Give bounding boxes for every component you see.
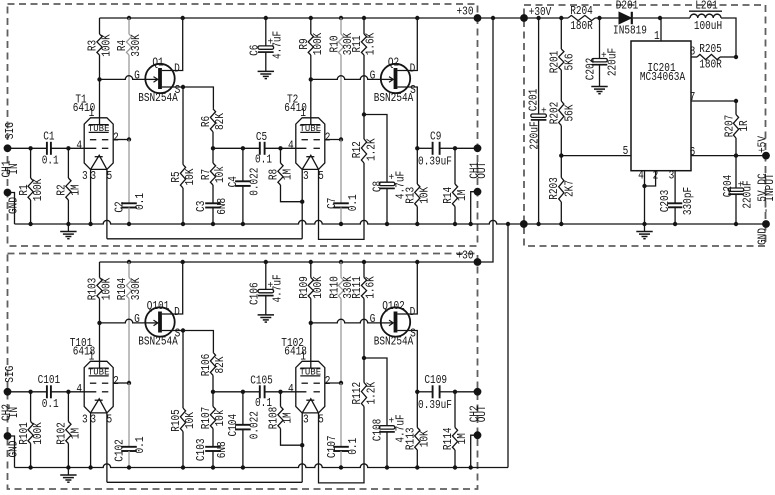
svg-text:100K: 100K [100, 277, 114, 300]
wire ground feed to CH2 [507, 224, 509, 468]
transistor Q1 [145, 64, 174, 93]
capacitor C204 [735, 156, 737, 188]
wire input to grid pin 4 [51, 147, 96, 149]
svg-text:C106: C106 [248, 282, 262, 305]
node C204 top [734, 153, 738, 157]
resistor R101 [30, 392, 32, 422]
svg-text:220uF: 220uF [606, 48, 620, 76]
node R108 to cathode of T102 [300, 443, 304, 447]
resistor R203 [560, 156, 562, 178]
resistor R11 [363, 18, 365, 34]
node CH1 OUT ground terminal [474, 188, 482, 196]
svg-text:C108: C108 [370, 419, 384, 442]
wire plate of T1 (pin 1) [99, 79, 101, 125]
resistor R2 [67, 148, 69, 178]
transistor Q2 [381, 64, 410, 93]
resistor R3 [99, 18, 101, 34]
svg-text:10k: 10k [213, 166, 227, 183]
svg-text:R205: R205 [699, 42, 722, 56]
resistor R107 [212, 392, 214, 407]
wire drain of Q2 [397, 18, 417, 71]
node R103 bottom / gate junction [97, 321, 101, 325]
svg-text:4: 4 [76, 382, 82, 396]
svg-text:1M: 1M [281, 412, 295, 423]
wire CH1 gnd terminal link [8, 193, 15, 225]
wire L201 to output node [721, 18, 736, 57]
svg-text:R11: R11 [350, 36, 364, 53]
ground under C6 [265, 70, 267, 72]
resistor R110 [340, 262, 342, 278]
svg-text:10K: 10K [183, 411, 197, 429]
wire CH1 filament link [107, 238, 302, 240]
svg-text:10K: 10K [183, 168, 197, 186]
capacitor C202 [599, 18, 601, 59]
svg-text:C109: C109 [424, 373, 447, 387]
svg-text:1: 1 [89, 350, 95, 364]
capacitor C201 [538, 18, 540, 114]
resistor R14 [454, 148, 456, 184]
svg-text:-: - [759, 208, 773, 214]
wire CH2 +30 rail [100, 261, 478, 263]
resistor R201 [560, 18, 562, 49]
wire CH2 input [8, 391, 47, 393]
wire pin 5 cathode of T101 [106, 413, 108, 482]
ground under R102 [67, 468, 69, 476]
resistor R13 [416, 148, 418, 184]
node CH2 OUT terminal [474, 388, 482, 396]
tube T1 [84, 118, 113, 170]
svg-text:0.022: 0.022 [248, 168, 262, 196]
node R2 top [66, 146, 70, 150]
resistor R9 [310, 18, 312, 34]
svg-text:5K6: 5K6 [563, 54, 577, 71]
svg-text:OUT: OUT [475, 405, 489, 422]
wire pin 2 [645, 171, 656, 186]
svg-text:C103: C103 [194, 439, 208, 462]
node R13 top / source junction [415, 146, 419, 150]
svg-text:1M: 1M [69, 428, 83, 439]
svg-text:1M: 1M [455, 190, 469, 201]
resistor R108 [280, 392, 282, 407]
svg-text:2K7: 2K7 [562, 180, 576, 197]
svg-text:Q101: Q101 [147, 299, 170, 313]
svg-text:C3: C3 [194, 201, 208, 212]
svg-text:G: G [370, 312, 376, 326]
svg-text:1.6K: 1.6K [363, 32, 377, 55]
wire gate of Q102 [311, 319, 384, 323]
svg-text:OUT: OUT [475, 162, 489, 179]
svg-text:R204: R204 [570, 4, 593, 18]
capacitor C203 [674, 202, 676, 204]
capacitor C9 [417, 147, 432, 149]
node CH1 +30 terminal [474, 14, 482, 22]
wire pin 4 to ground [644, 171, 646, 224]
svg-text:C8: C8 [370, 181, 384, 192]
svg-text:IN5819: IN5819 [613, 23, 647, 37]
svg-text:R6: R6 [199, 116, 213, 127]
resistor R103 [99, 262, 101, 278]
svg-text:R111: R111 [350, 276, 364, 299]
svg-text:R203: R203 [547, 177, 561, 200]
svg-text:SIG: SIG [3, 122, 17, 139]
svg-text:220uF: 220uF [528, 121, 542, 149]
resistor R7 [212, 148, 214, 163]
node R207 top [734, 99, 738, 103]
svg-text:100K: 100K [311, 32, 325, 55]
node C104 top [241, 390, 245, 394]
svg-text:330pF: 330pF [681, 187, 695, 215]
svg-text:C1: C1 [43, 129, 54, 143]
wire pin 7 [691, 100, 736, 102]
svg-text:8: 8 [690, 44, 696, 58]
node CH2 +30 terminal [474, 258, 482, 266]
svg-text:4: 4 [288, 139, 294, 153]
svg-text:C104: C104 [226, 414, 240, 437]
svg-text:BSN254A: BSN254A [138, 334, 178, 348]
svg-text:G: G [134, 69, 140, 83]
svg-text:R7: R7 [199, 169, 213, 180]
svg-text:Q1: Q1 [152, 55, 163, 69]
wire pin 3 of T101 [90, 413, 92, 468]
svg-text:Q102: Q102 [382, 299, 405, 313]
svg-text:D: D [174, 61, 180, 75]
wire pin 5 of T2 [319, 163, 365, 239]
svg-text:3: 3 [669, 169, 675, 183]
svg-text:R103: R103 [86, 278, 100, 301]
svg-text:BSN254A: BSN254A [374, 334, 414, 348]
node source Q1 / R5 top [181, 85, 185, 89]
svg-text:100K: 100K [311, 276, 325, 299]
svg-text:R3: R3 [86, 40, 100, 51]
wire source of Q102 [397, 331, 417, 392]
svg-text:C6: C6 [248, 45, 262, 56]
wire plate of T2 (pin 1) [310, 79, 312, 125]
IC U1 IC201 box [631, 41, 691, 171]
svg-text:R12: R12 [350, 141, 364, 158]
resistor R109 [310, 262, 312, 278]
wire pin 3 of T1 [90, 169, 92, 224]
wire pin 5 cathode of T1 [106, 169, 108, 238]
node R108 top [278, 390, 282, 394]
svg-text:7: 7 [690, 90, 696, 104]
svg-text:+5V: +5V [756, 135, 770, 153]
ground under R2 [67, 224, 69, 232]
wire CH2 filament link [107, 481, 302, 483]
node R1 top [28, 146, 32, 150]
node R102 top [66, 390, 70, 394]
wire to CH2 OUT [455, 391, 478, 393]
svg-text:0.1: 0.1 [346, 438, 360, 455]
resistor R6 [210, 109, 215, 132]
tube T2 [296, 118, 325, 170]
wire drain of Q101 [162, 262, 183, 314]
wire pin 5 [561, 155, 631, 157]
svg-text:GND: GND [756, 228, 770, 245]
node R113 top / source junction [415, 390, 419, 394]
resistor R1 [30, 148, 32, 178]
diode D201 [619, 12, 631, 24]
wire gate of Q2 [311, 76, 384, 80]
svg-text:82K: 82K [213, 356, 227, 374]
svg-text:220uF: 220uF [741, 180, 755, 208]
wire pin 1 [660, 18, 662, 41]
capacitor C6 [265, 18, 267, 46]
svg-text:4: 4 [76, 139, 82, 153]
resistor R111 [363, 262, 365, 278]
svg-text:+30: +30 [457, 248, 474, 262]
wire node to C108 [364, 358, 387, 426]
node R109 bottom / gate junction [309, 321, 313, 325]
svg-text:BSN254A: BSN254A [374, 91, 414, 105]
svg-text:10K: 10K [418, 186, 432, 204]
capacitor C3 [212, 185, 214, 203]
svg-text:C7: C7 [325, 198, 339, 209]
node A R6 bottom [211, 146, 215, 150]
wire drain of Q102 [397, 262, 417, 314]
svg-text:3: 3 [82, 169, 88, 183]
svg-text:C204: C204 [721, 175, 735, 198]
node CH1 IN terminal [4, 144, 12, 152]
svg-text:C5: C5 [256, 130, 267, 144]
svg-text:100K: 100K [31, 178, 45, 201]
svg-text:C107: C107 [325, 436, 339, 459]
svg-text:10K: 10K [418, 430, 432, 448]
svg-text:4: 4 [638, 169, 644, 183]
node R14 top [453, 146, 457, 150]
svg-text:2: 2 [113, 131, 119, 145]
resistor R8 [280, 148, 282, 163]
svg-text:R1: R1 [17, 184, 31, 195]
svg-text:+30: +30 [457, 4, 474, 18]
wire gate of Q101 [100, 319, 149, 323]
CH2 box border [8, 254, 478, 490]
svg-text:C2: C2 [113, 201, 127, 212]
resistor R113 [416, 392, 418, 428]
capacitor C4 [242, 148, 244, 181]
svg-text:180R: 180R [570, 19, 593, 33]
svg-text:GND: GND [6, 197, 20, 214]
svg-text:C101: C101 [38, 373, 61, 387]
svg-text:C202: C202 [584, 58, 598, 81]
svg-text:0.022: 0.022 [248, 411, 262, 439]
svg-text:1: 1 [89, 106, 95, 120]
wire node A to C5 [213, 147, 260, 149]
wire node to C8 [364, 115, 387, 183]
svg-text:4.7uF: 4.7uF [271, 274, 285, 302]
capacitor C8 [386, 181, 388, 183]
svg-text:1: 1 [300, 106, 306, 120]
tube T101 [84, 361, 113, 413]
svg-text:R13: R13 [404, 187, 418, 204]
capacitor C105 [259, 385, 261, 398]
svg-text:1.2K: 1.2K [365, 381, 379, 404]
node C202 top [597, 16, 601, 20]
svg-text:R108: R108 [267, 407, 281, 430]
svg-text:0.39uF: 0.39uF [418, 154, 452, 168]
wire D201 to L201 [633, 17, 690, 19]
svg-text:56K: 56K [562, 104, 576, 122]
svg-text:C201: C201 [527, 89, 541, 112]
svg-text:2: 2 [325, 374, 331, 388]
node source Q101 / R105 top [181, 328, 185, 332]
node R11 bottom [362, 112, 366, 116]
wire to CH1 OUT [455, 147, 478, 149]
capacitor C108 [386, 425, 388, 427]
wire drain of Q1 [162, 18, 183, 71]
svg-text:G: G [370, 69, 376, 83]
wire pin 2 of T101 [113, 382, 129, 384]
svg-text:3: 3 [303, 413, 309, 427]
svg-text:R110: R110 [328, 276, 342, 299]
svg-text:4.7uF: 4.7uF [271, 31, 285, 59]
node IC pin1 junction [658, 16, 662, 20]
svg-text:R106: R106 [199, 354, 213, 377]
svg-text:1.6K: 1.6K [363, 276, 377, 299]
node +30V terminal [520, 14, 528, 22]
svg-text:R112: R112 [350, 382, 364, 405]
svg-text:D: D [174, 305, 180, 319]
svg-text:10k: 10k [213, 410, 227, 427]
svg-text:R4: R4 [115, 40, 129, 51]
svg-text:2: 2 [325, 131, 331, 145]
svg-text:6N8: 6N8 [215, 441, 229, 458]
wire R204 to D201 [595, 17, 619, 19]
svg-text:R2: R2 [55, 184, 69, 195]
svg-text:330K: 330K [129, 34, 143, 57]
wire input to grid pin 4 [51, 391, 96, 393]
wire pin 3 [674, 171, 676, 204]
svg-text:D: D [410, 305, 416, 319]
wire pin 5 of T102 [319, 407, 365, 483]
node R8 top [278, 146, 282, 150]
svg-text:2: 2 [653, 169, 659, 183]
svg-text:R109: R109 [297, 276, 311, 299]
svg-text:TUBE: TUBE [88, 123, 110, 134]
svg-text:Q2: Q2 [388, 55, 399, 69]
node R114 top [453, 390, 457, 394]
svg-text:100uH: 100uH [694, 19, 722, 33]
capacitor C109 [417, 391, 432, 393]
svg-text:INPUT: INPUT [763, 173, 775, 201]
node +5V terminal [762, 152, 770, 160]
svg-text:0.1: 0.1 [42, 397, 59, 411]
node supply ground junctions [536, 222, 540, 226]
svg-text:MC34063A: MC34063A [640, 70, 686, 84]
svg-text:C102: C102 [113, 439, 127, 462]
node CH2 OUT ground terminal [474, 431, 482, 439]
svg-text:3: 3 [303, 169, 309, 183]
node C203 bottom [673, 222, 677, 226]
svg-text:3: 3 [82, 413, 88, 427]
node CH2 IN terminal [4, 388, 12, 396]
svg-text:0.1: 0.1 [42, 154, 59, 168]
wire gate of Q1 [100, 76, 149, 80]
svg-text:82K: 82K [213, 112, 227, 130]
wire pin 2 of T102 [325, 382, 341, 384]
svg-text:0.1: 0.1 [133, 193, 147, 210]
capacitor C103 [212, 429, 214, 447]
wire +30 feed to CH2 [478, 18, 494, 262]
node CH2 GND terminal [4, 432, 12, 440]
svg-text:R201: R201 [547, 51, 561, 74]
node R101 top [28, 390, 32, 394]
svg-text:1R: 1R [737, 120, 751, 131]
wire source of Q1 [162, 87, 214, 109]
svg-text:1.2K: 1.2K [365, 138, 379, 161]
node A R106 bottom [211, 390, 215, 394]
svg-text:0.39uF: 0.39uF [418, 398, 452, 412]
svg-text:R104: R104 [115, 278, 129, 301]
capacitor C104 [242, 392, 244, 425]
ground under IC201 [644, 224, 646, 232]
resistor R202 [559, 101, 564, 126]
node CH1 GND terminal [4, 189, 12, 197]
wire plate of T102 (pin 1) [310, 323, 312, 369]
svg-text:GND: GND [6, 441, 20, 458]
svg-text:R5: R5 [169, 171, 183, 182]
node R3 bottom / gate junction [97, 77, 101, 81]
svg-text:5: 5 [623, 144, 629, 158]
capacitor C7 [340, 140, 342, 204]
wire pin 2 of T1 [113, 139, 129, 141]
wire C105 to grid of T102 [265, 391, 307, 393]
svg-text:R9: R9 [297, 38, 311, 49]
ground under C202 [599, 86, 601, 88]
wire main ground rail [15, 220, 767, 224]
resistor R5 [182, 87, 184, 165]
capacitor C106 [265, 262, 267, 289]
resistor R12 [363, 115, 365, 140]
node R8 to cathode of T2 [300, 200, 304, 204]
wire pin 3 of T2 [301, 169, 303, 238]
svg-text:1M: 1M [281, 169, 295, 180]
wire R201 to R202 [560, 70, 562, 101]
svg-text:C4: C4 [226, 176, 240, 187]
svg-text:R102: R102 [55, 422, 69, 445]
svg-text:330K: 330K [129, 277, 143, 300]
wire CH1 input [8, 147, 47, 149]
wire pin 6 to +5V [691, 155, 766, 157]
wire C5 to grid of T2 [265, 147, 307, 149]
svg-text:C9: C9 [430, 129, 441, 143]
CH1 box border [8, 4, 478, 246]
node GND terminal [762, 220, 770, 228]
svg-text:100K: 100K [100, 34, 114, 57]
wire CH1 OUT ground link [471, 192, 478, 224]
svg-text:6N8: 6N8 [215, 198, 229, 215]
capacitor C107 [340, 383, 342, 447]
wire node A to C105 [213, 391, 260, 393]
wire source of Q101 [162, 331, 214, 353]
resistor R105 [182, 331, 184, 409]
resistor R102 [67, 392, 69, 422]
transistor Q102 [381, 307, 410, 336]
svg-text:1: 1 [300, 350, 306, 364]
resistor R204 [568, 15, 595, 20]
svg-text:BSN254A: BSN254A [138, 91, 178, 105]
wire plate of T101 (pin 1) [99, 323, 101, 369]
capacitor C5 [259, 142, 261, 155]
power supply box border [524, 5, 766, 246]
resistor R106 [210, 352, 215, 375]
tube T102 [296, 361, 325, 413]
transistor Q101 [145, 307, 174, 336]
resistor R4 [128, 18, 130, 34]
capacitor C2 [128, 140, 130, 204]
svg-text:C203: C203 [658, 190, 672, 213]
node CH1 ground rail junctions [28, 222, 32, 226]
node R111 bottom [362, 356, 366, 360]
